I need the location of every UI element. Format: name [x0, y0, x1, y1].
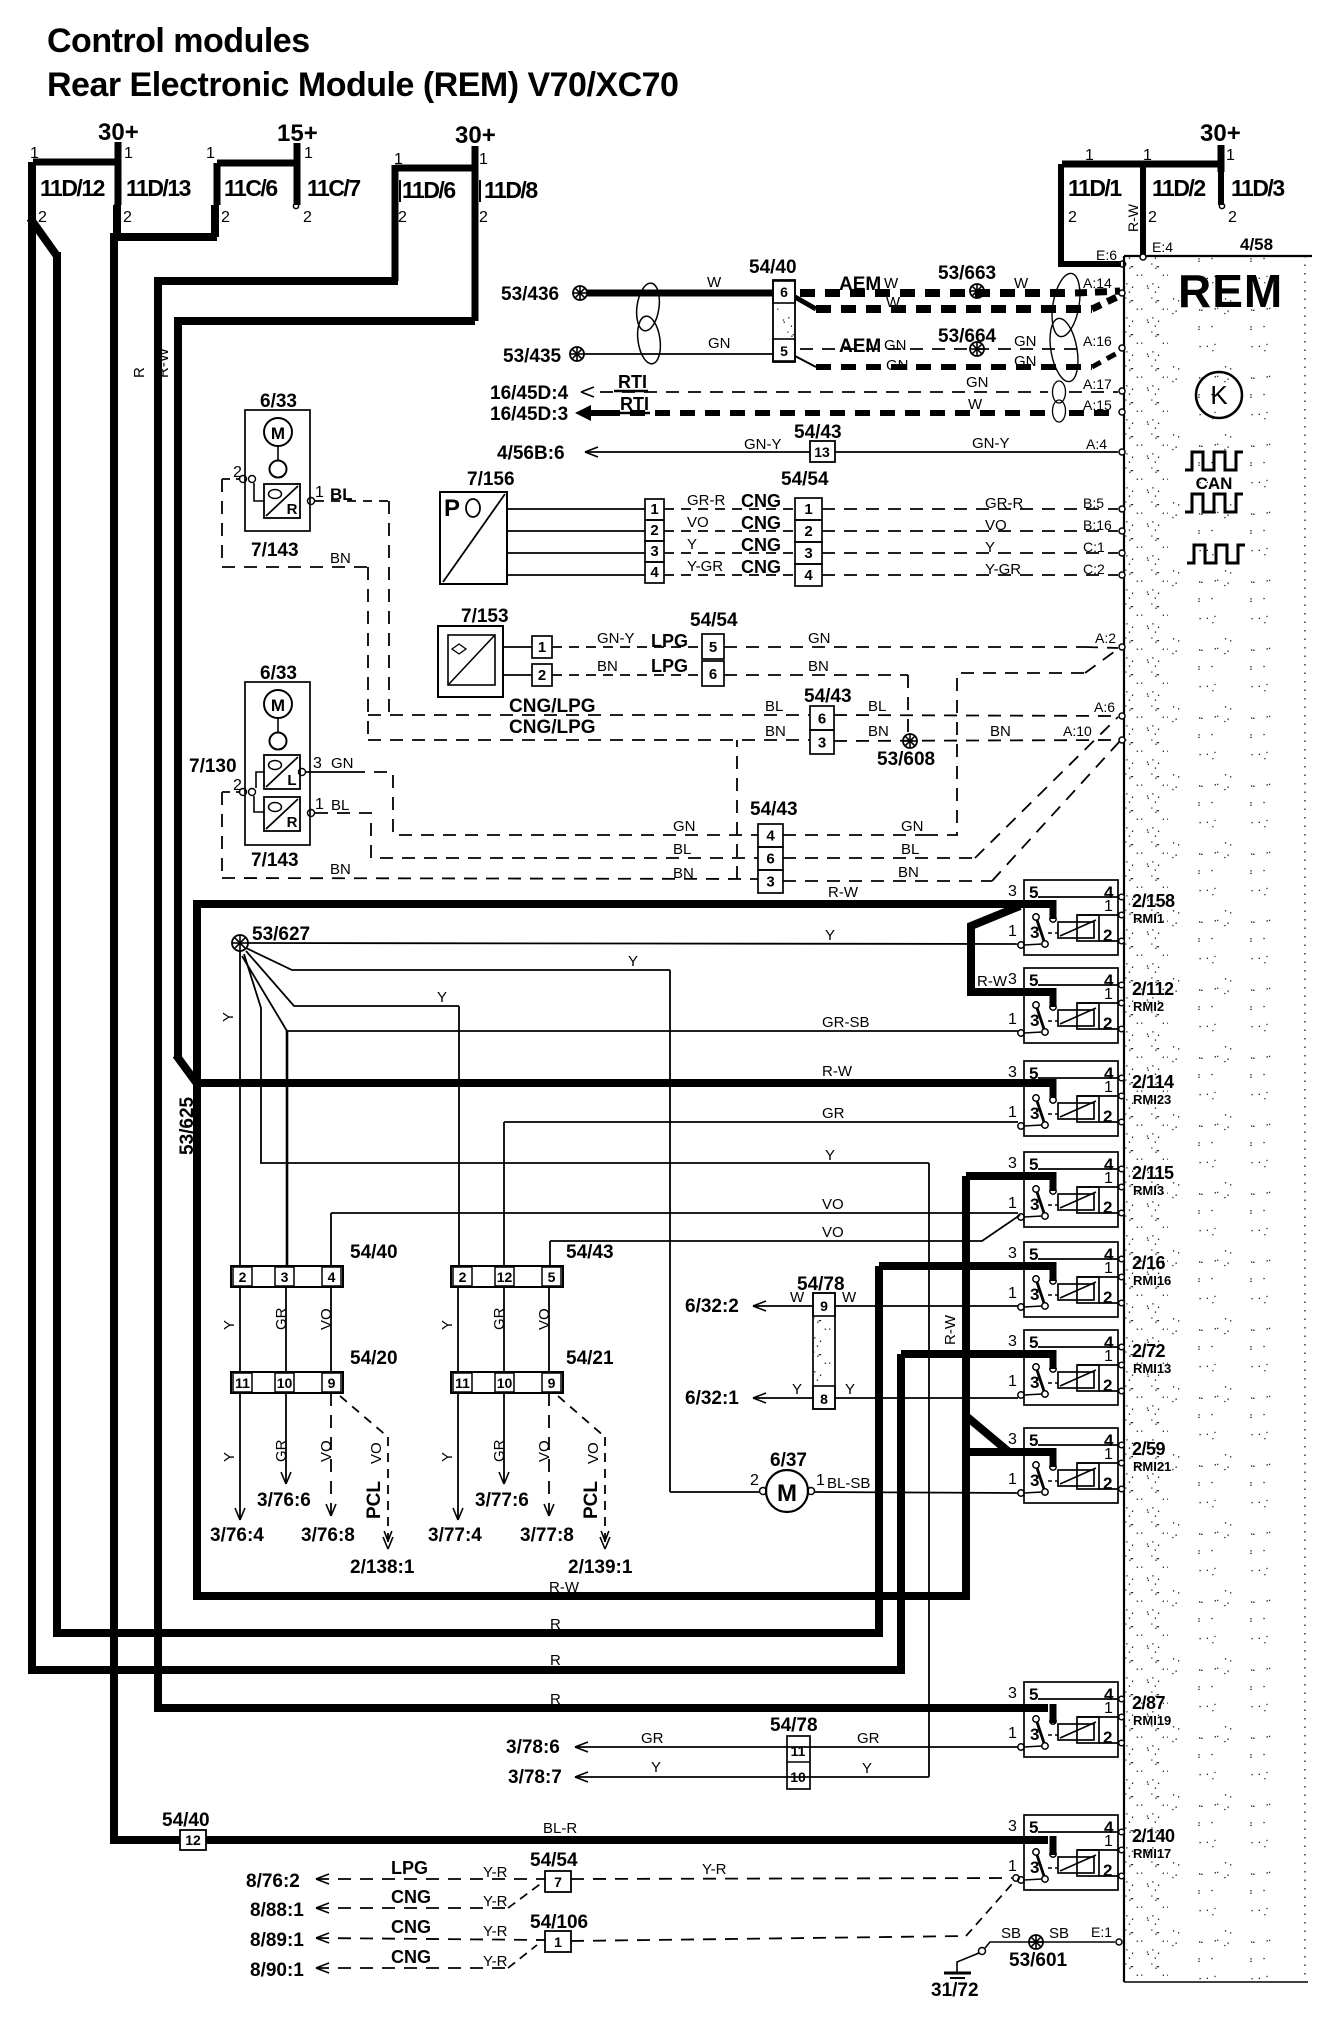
svg-text:BL: BL	[673, 841, 691, 858]
svg-text:GN-Y: GN-Y	[744, 436, 782, 453]
svg-text:1: 1	[650, 501, 658, 518]
svg-text:CNG: CNG	[391, 1887, 431, 1907]
svg-text:3: 3	[313, 755, 322, 772]
svg-text:GN: GN	[1014, 353, 1037, 370]
svg-text:K: K	[1210, 380, 1228, 410]
svg-text:GR-R: GR-R	[985, 495, 1023, 512]
svg-text:3: 3	[766, 874, 774, 891]
svg-text:Y: Y	[220, 1012, 237, 1022]
svg-text:GN-Y: GN-Y	[972, 435, 1010, 452]
svg-text:2: 2	[1103, 1861, 1112, 1880]
svg-text:RMI19: RMI19	[1133, 1713, 1171, 1728]
svg-text:1: 1	[538, 639, 546, 656]
svg-text:R: R	[287, 501, 298, 518]
svg-text:R-W: R-W	[1125, 203, 1141, 232]
svg-text:54/54: 54/54	[690, 610, 738, 631]
svg-text:54/43: 54/43	[566, 1242, 614, 1263]
svg-text:4: 4	[650, 564, 659, 581]
svg-text:11D/3: 11D/3	[1231, 175, 1284, 201]
svg-text:2: 2	[1103, 1376, 1112, 1395]
svg-text:W: W	[842, 1289, 857, 1306]
svg-text:9: 9	[328, 1375, 336, 1391]
svg-text:8/88:1: 8/88:1	[250, 1900, 304, 1921]
svg-text:1: 1	[1008, 1104, 1017, 1121]
svg-text:4/58: 4/58	[1240, 235, 1273, 254]
svg-text:VO: VO	[822, 1196, 844, 1213]
svg-text:53/627: 53/627	[252, 924, 310, 945]
svg-text:W: W	[790, 1289, 805, 1306]
svg-text:M: M	[777, 1480, 797, 1507]
svg-text:1: 1	[1104, 1348, 1113, 1365]
svg-text:RMI16: RMI16	[1133, 1273, 1171, 1288]
svg-text:1: 1	[1085, 147, 1094, 164]
svg-text:7/153: 7/153	[461, 606, 509, 627]
svg-text:53/436: 53/436	[501, 284, 559, 305]
svg-text:54/78: 54/78	[770, 1715, 818, 1736]
svg-text:E:4: E:4	[1152, 239, 1173, 255]
svg-text:E:1: E:1	[1091, 1924, 1112, 1940]
svg-text:R: R	[287, 814, 298, 831]
svg-text:11D/12: 11D/12	[40, 175, 105, 201]
svg-text:3: 3	[1008, 1064, 1017, 1081]
svg-text:W: W	[1014, 275, 1029, 292]
svg-text:W: W	[707, 274, 722, 291]
svg-text:53/664: 53/664	[938, 326, 997, 347]
svg-text:Y: Y	[439, 1320, 456, 1330]
svg-text:Y: Y	[862, 1760, 872, 1777]
svg-text:BN: BN	[868, 723, 889, 740]
svg-text:VO: VO	[318, 1440, 335, 1462]
svg-text:12: 12	[185, 1832, 201, 1848]
svg-text:30+: 30+	[455, 122, 496, 149]
svg-text:VO: VO	[318, 1308, 335, 1330]
svg-text:10: 10	[497, 1375, 513, 1391]
svg-text:15+: 15+	[277, 120, 318, 147]
svg-text:E:6: E:6	[1096, 247, 1117, 263]
svg-text:54/54: 54/54	[781, 469, 829, 490]
svg-text:Y: Y	[221, 1320, 238, 1330]
svg-text:Y-R: Y-R	[483, 1953, 508, 1970]
svg-text:2/115: 2/115	[1132, 1163, 1174, 1183]
svg-text:GN: GN	[884, 337, 907, 354]
svg-text:6/32:2: 6/32:2	[685, 1296, 739, 1317]
svg-text:R: R	[550, 1616, 561, 1633]
svg-text:3/78:7: 3/78:7	[508, 1767, 562, 1788]
svg-text:GR: GR	[822, 1105, 845, 1122]
svg-text:8: 8	[820, 1391, 828, 1407]
svg-text:Y: Y	[792, 1381, 802, 1398]
svg-text:2: 2	[1068, 209, 1077, 226]
svg-text:A:17: A:17	[1083, 376, 1112, 392]
svg-text:54/106: 54/106	[530, 1912, 588, 1933]
svg-text:2: 2	[538, 667, 546, 684]
svg-text:R-W: R-W	[155, 347, 172, 378]
svg-text:3/76:8: 3/76:8	[301, 1525, 355, 1546]
svg-text:GR: GR	[641, 1730, 664, 1747]
svg-text:A:16: A:16	[1083, 333, 1112, 349]
svg-text:12: 12	[497, 1269, 513, 1285]
svg-text:7/156: 7/156	[467, 469, 515, 490]
svg-text:GR: GR	[273, 1307, 290, 1330]
svg-text:Y: Y	[687, 536, 697, 553]
svg-text:1: 1	[479, 151, 488, 168]
svg-text:BN: BN	[808, 658, 829, 675]
svg-text:2: 2	[1103, 1474, 1112, 1493]
svg-text:BN: BN	[990, 723, 1011, 740]
svg-text:CNG: CNG	[741, 513, 781, 533]
svg-text:6/37: 6/37	[770, 1450, 807, 1471]
svg-text:2: 2	[479, 209, 488, 226]
svg-text:RMI13: RMI13	[1133, 1361, 1171, 1376]
svg-text:1: 1	[1008, 1195, 1017, 1212]
svg-text:Y: Y	[825, 927, 835, 944]
svg-text:2: 2	[1103, 926, 1112, 945]
svg-text:2: 2	[804, 523, 812, 540]
svg-text:Rear Electronic Module (REM) V: Rear Electronic Module (REM) V70/XC70	[47, 66, 678, 104]
svg-text:11D/8: 11D/8	[484, 177, 538, 203]
svg-text:BN: BN	[673, 865, 694, 882]
svg-text:8/76:2: 8/76:2	[246, 1871, 300, 1892]
svg-text:P: P	[444, 495, 460, 522]
svg-text:2/112: 2/112	[1132, 979, 1174, 999]
svg-text:1: 1	[1104, 1700, 1113, 1717]
svg-text:3: 3	[1008, 883, 1017, 900]
svg-text:RMI21: RMI21	[1133, 1459, 1171, 1474]
svg-text:Y-R: Y-R	[483, 1893, 508, 1910]
svg-text:16/45D:4: 16/45D:4	[490, 383, 569, 404]
svg-text:1: 1	[124, 145, 133, 162]
svg-text:AEM: AEM	[839, 336, 881, 357]
svg-text:1: 1	[1104, 1079, 1113, 1096]
svg-text:11D/2: 11D/2	[1152, 175, 1205, 201]
svg-text:1: 1	[554, 1934, 562, 1950]
svg-text:4: 4	[766, 828, 775, 845]
svg-text:Y-R: Y-R	[702, 1861, 727, 1878]
svg-text:VO: VO	[687, 514, 709, 531]
svg-text:53/601: 53/601	[1009, 1950, 1068, 1971]
svg-text:A:2: A:2	[1095, 630, 1116, 646]
svg-text:16/45D:3: 16/45D:3	[490, 404, 568, 425]
svg-text:R: R	[550, 1691, 561, 1708]
svg-text:5: 5	[1029, 1818, 1038, 1837]
svg-text:2: 2	[221, 209, 230, 226]
svg-text:1: 1	[1104, 1260, 1113, 1277]
svg-text:3: 3	[818, 734, 826, 751]
svg-text:2: 2	[123, 209, 132, 226]
svg-text:R-W: R-W	[822, 1063, 853, 1080]
svg-text:9: 9	[548, 1375, 556, 1391]
svg-text:6: 6	[766, 851, 774, 868]
svg-text:2/16: 2/16	[1132, 1253, 1166, 1273]
svg-text:5: 5	[1029, 1333, 1038, 1352]
svg-text:1: 1	[1104, 1170, 1113, 1187]
svg-text:11C/7: 11C/7	[307, 175, 360, 201]
svg-text:Control modules: Control modules	[47, 22, 310, 60]
svg-text:3: 3	[650, 543, 658, 560]
svg-text:11D/6: 11D/6	[402, 177, 455, 203]
svg-text:2/139:1: 2/139:1	[568, 1557, 633, 1578]
svg-text:Y-GR: Y-GR	[985, 561, 1021, 578]
svg-text:6/32:1: 6/32:1	[685, 1388, 739, 1409]
svg-text:2: 2	[1103, 1107, 1112, 1126]
svg-text:3: 3	[1008, 1685, 1017, 1702]
svg-text:7/130: 7/130	[189, 756, 237, 777]
svg-text:3: 3	[281, 1269, 289, 1285]
svg-text:GR: GR	[491, 1439, 508, 1462]
svg-text:RMI23: RMI23	[1133, 1092, 1171, 1107]
svg-text:1: 1	[804, 501, 812, 518]
svg-text:1: 1	[1008, 923, 1017, 940]
svg-text:11: 11	[455, 1375, 470, 1391]
svg-text:Y: Y	[825, 1147, 835, 1164]
svg-text:2: 2	[459, 1269, 467, 1285]
svg-text:CNG: CNG	[741, 491, 781, 511]
svg-text:BN: BN	[597, 658, 618, 675]
svg-text:5: 5	[1029, 1431, 1038, 1450]
svg-text:BN: BN	[330, 861, 351, 878]
svg-text:5: 5	[709, 639, 717, 656]
svg-text:53/435: 53/435	[503, 346, 562, 367]
svg-text:PCL: PCL	[581, 1481, 602, 1519]
svg-text:RMI1: RMI1	[1133, 911, 1164, 926]
svg-text:A:14: A:14	[1083, 275, 1112, 291]
svg-text:CNG/LPG: CNG/LPG	[509, 696, 596, 717]
svg-text:VO: VO	[985, 517, 1007, 534]
svg-text:3/76:4: 3/76:4	[210, 1525, 264, 1546]
svg-text:4: 4	[804, 567, 813, 584]
svg-text:1: 1	[1104, 898, 1113, 915]
svg-text:REM: REM	[1178, 265, 1283, 317]
svg-text:5: 5	[1029, 1245, 1038, 1264]
svg-text:LPG: LPG	[651, 631, 688, 651]
svg-text:Y: Y	[845, 1381, 855, 1398]
svg-text:1: 1	[1008, 1285, 1017, 1302]
svg-text:3: 3	[1008, 1155, 1017, 1172]
svg-text:LPG: LPG	[391, 1858, 428, 1878]
svg-text:2/158: 2/158	[1132, 891, 1175, 911]
svg-text:1: 1	[1104, 986, 1113, 1003]
svg-text:3/78:6: 3/78:6	[506, 1737, 560, 1758]
svg-text:6: 6	[818, 710, 826, 727]
svg-text:2/72: 2/72	[1132, 1341, 1166, 1361]
svg-text:7: 7	[554, 1874, 562, 1890]
svg-text:CNG/LPG: CNG/LPG	[509, 717, 596, 738]
svg-text:Y-R: Y-R	[483, 1864, 508, 1881]
svg-text:GN-Y: GN-Y	[597, 630, 635, 647]
svg-text:3: 3	[1008, 1245, 1017, 1262]
svg-text:GN: GN	[673, 818, 696, 835]
svg-text:6: 6	[709, 666, 717, 683]
svg-text:Y: Y	[651, 1759, 661, 1776]
svg-text:1: 1	[1008, 1858, 1017, 1875]
svg-text:1: 1	[206, 145, 215, 162]
svg-text:BN: BN	[330, 550, 351, 567]
svg-text:GN: GN	[808, 630, 831, 647]
svg-text:3/77:4: 3/77:4	[428, 1525, 482, 1546]
svg-text:2: 2	[1103, 1014, 1112, 1033]
svg-text:CNG: CNG	[741, 535, 781, 555]
svg-text:RTI: RTI	[618, 372, 647, 392]
svg-text:2/140: 2/140	[1132, 1826, 1175, 1846]
svg-text:BN: BN	[898, 864, 919, 881]
svg-text:R-W: R-W	[828, 884, 859, 901]
svg-text:2: 2	[1228, 209, 1237, 226]
svg-text:1: 1	[304, 145, 313, 162]
svg-text:2: 2	[1103, 1728, 1112, 1747]
svg-text:2: 2	[398, 209, 407, 226]
svg-text:GN: GN	[966, 374, 989, 391]
svg-text:BN: BN	[765, 723, 786, 740]
svg-text:54/21: 54/21	[566, 1348, 614, 1369]
svg-text:M: M	[271, 696, 285, 715]
svg-text:1: 1	[1104, 1446, 1113, 1463]
svg-text:L: L	[287, 772, 296, 789]
svg-text:Y-GR: Y-GR	[687, 558, 723, 575]
svg-text:Y: Y	[985, 539, 995, 556]
svg-text:GR: GR	[491, 1307, 508, 1330]
svg-text:Y-R: Y-R	[483, 1923, 508, 1940]
svg-text:2: 2	[750, 1472, 759, 1489]
svg-text:Y: Y	[628, 953, 638, 970]
svg-text:GR-SB: GR-SB	[822, 1014, 870, 1031]
svg-text:R: R	[550, 1652, 561, 1669]
svg-text:13: 13	[814, 444, 830, 460]
svg-text:1: 1	[315, 796, 324, 813]
svg-text:53/625: 53/625	[177, 1096, 198, 1155]
svg-text:B:5: B:5	[1083, 495, 1104, 511]
svg-text:2: 2	[38, 209, 47, 226]
svg-text:VO: VO	[536, 1308, 553, 1330]
svg-text:54/40: 54/40	[162, 1810, 210, 1831]
svg-text:54/20: 54/20	[350, 1348, 398, 1369]
svg-text:7/143: 7/143	[251, 850, 299, 871]
svg-text:Y: Y	[221, 1452, 238, 1462]
svg-text:C:1: C:1	[1083, 539, 1105, 555]
svg-text:GN: GN	[1014, 333, 1037, 350]
svg-text:VO: VO	[368, 1442, 385, 1464]
svg-text:1: 1	[1143, 147, 1152, 164]
svg-text:GR: GR	[857, 1730, 880, 1747]
svg-text:2: 2	[1103, 1198, 1112, 1217]
svg-text:R-W: R-W	[977, 973, 1008, 990]
svg-text:CNG: CNG	[391, 1947, 431, 1967]
svg-text:54/43: 54/43	[750, 799, 798, 820]
svg-text:B:16: B:16	[1083, 517, 1112, 533]
svg-text:3/77:6: 3/77:6	[475, 1490, 529, 1511]
svg-text:53/608: 53/608	[877, 749, 935, 770]
svg-text:A:10: A:10	[1063, 723, 1092, 739]
svg-text:2/87: 2/87	[1132, 1693, 1166, 1713]
svg-text:SB: SB	[1049, 1925, 1069, 1942]
svg-text:R-W: R-W	[549, 1579, 580, 1596]
svg-text:R-W: R-W	[942, 1314, 959, 1345]
svg-text:11: 11	[791, 1743, 806, 1759]
svg-text:1: 1	[1008, 1471, 1017, 1488]
svg-text:C:2: C:2	[1083, 561, 1105, 577]
svg-text:53/663: 53/663	[938, 263, 996, 284]
svg-text:11C/6: 11C/6	[224, 175, 277, 201]
svg-text:3: 3	[1008, 1818, 1017, 1835]
svg-text:54/43: 54/43	[804, 686, 852, 707]
svg-text:CNG: CNG	[741, 557, 781, 577]
svg-text:BL-R: BL-R	[543, 1820, 577, 1837]
svg-text:6: 6	[780, 284, 788, 300]
svg-text:BL-SB: BL-SB	[827, 1475, 870, 1492]
svg-text:RMI2: RMI2	[1133, 999, 1164, 1014]
svg-text:11: 11	[235, 1375, 250, 1391]
svg-text:30+: 30+	[1200, 120, 1241, 147]
svg-text:4/56B:6: 4/56B:6	[497, 443, 565, 464]
svg-text:3/77:8: 3/77:8	[520, 1525, 574, 1546]
svg-text:W: W	[968, 396, 983, 413]
svg-text:1: 1	[1008, 1725, 1017, 1742]
svg-text:GN: GN	[708, 335, 731, 352]
svg-text:PCL: PCL	[364, 1481, 385, 1519]
svg-text:SB: SB	[1001, 1925, 1021, 1942]
svg-text:11D/13: 11D/13	[126, 175, 191, 201]
svg-text:BL: BL	[868, 698, 886, 715]
svg-text:2: 2	[1103, 1288, 1112, 1307]
svg-text:1: 1	[1226, 147, 1235, 164]
svg-text:5: 5	[1029, 1685, 1038, 1704]
svg-text:5: 5	[1029, 1155, 1038, 1174]
svg-text:1: 1	[816, 1472, 825, 1489]
svg-text:3: 3	[1008, 971, 1017, 988]
svg-text:2/138:1: 2/138:1	[350, 1557, 415, 1578]
svg-text:VO: VO	[822, 1224, 844, 1241]
svg-text:30+: 30+	[98, 119, 139, 146]
svg-text:GN: GN	[331, 755, 354, 772]
svg-text:5: 5	[548, 1269, 556, 1285]
svg-text:8/90:1: 8/90:1	[250, 1960, 304, 1981]
svg-text:RMI17: RMI17	[1133, 1846, 1171, 1861]
svg-text:VO: VO	[585, 1442, 602, 1464]
svg-text:3: 3	[1008, 1431, 1017, 1448]
svg-text:CAN: CAN	[1196, 474, 1233, 493]
svg-text:1: 1	[1008, 1373, 1017, 1390]
svg-text:3: 3	[804, 545, 812, 562]
svg-text:2/59: 2/59	[1132, 1439, 1166, 1459]
svg-text:1: 1	[30, 145, 39, 162]
svg-text:5: 5	[1029, 971, 1038, 990]
svg-text:Y: Y	[437, 989, 447, 1006]
svg-text:54/40: 54/40	[749, 257, 797, 278]
svg-text:A:6: A:6	[1094, 699, 1115, 715]
svg-text:2: 2	[239, 1269, 247, 1285]
svg-text:54/40: 54/40	[350, 1242, 398, 1263]
svg-text:3/76:6: 3/76:6	[257, 1490, 311, 1511]
svg-text:7/143: 7/143	[251, 540, 299, 561]
svg-text:BL: BL	[901, 841, 919, 858]
svg-text:10: 10	[277, 1375, 293, 1391]
svg-text:6/33: 6/33	[260, 663, 297, 684]
svg-text:6/33: 6/33	[260, 391, 297, 412]
svg-text:54/43: 54/43	[794, 422, 842, 443]
svg-text:8/89:1: 8/89:1	[250, 1930, 304, 1951]
svg-text:31/72: 31/72	[931, 1980, 979, 2001]
svg-text:GR-R: GR-R	[687, 492, 725, 509]
svg-text:RMI3: RMI3	[1133, 1183, 1164, 1198]
svg-text:54/54: 54/54	[530, 1850, 578, 1871]
svg-text:BL: BL	[765, 698, 783, 715]
svg-text:2: 2	[650, 522, 658, 539]
svg-text:9: 9	[820, 1298, 828, 1314]
svg-text:GN: GN	[901, 818, 924, 835]
svg-text:3: 3	[1008, 1333, 1017, 1350]
svg-text:5: 5	[780, 343, 788, 359]
svg-text:11D/1: 11D/1	[1068, 175, 1122, 201]
svg-text:1: 1	[315, 484, 324, 501]
